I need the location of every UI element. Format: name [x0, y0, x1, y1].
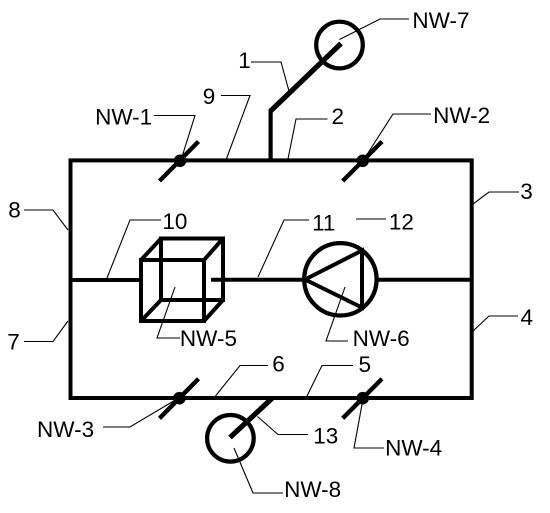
leader for label NW-4: [354, 399, 384, 448]
label NW-4: [385, 436, 442, 461]
wire: middle pipe right segment (NW-6 to right edge): [376, 278, 472, 282]
label NW-7: [412, 8, 469, 33]
leader for label 10: [107, 220, 161, 278]
svg-text:NW-5: NW-5: [180, 326, 237, 351]
svg-text:NW-7: NW-7: [412, 8, 469, 33]
wire: middle pipe center segment (NW-5 to NW-6): [211, 278, 305, 282]
label NW-2: [433, 103, 490, 128]
label 1: [238, 48, 251, 73]
valve NW-1 (top edge left): [160, 142, 199, 182]
svg-text:5: 5: [359, 352, 372, 377]
leader for label 5: [307, 366, 353, 397]
svg-text:NW-6: NW-6: [353, 326, 410, 351]
leader for label 4: [473, 316, 518, 331]
leader for label 2: [288, 119, 328, 159]
leader for label 8: [24, 210, 68, 230]
leader for label 13: [258, 417, 309, 435]
label 12: [389, 210, 414, 235]
svg-text:NW-1: NW-1: [95, 105, 152, 130]
svg-text:10: 10: [162, 209, 187, 234]
leader for label 11: [258, 220, 309, 277]
svg-text:NW-4: NW-4: [385, 436, 442, 461]
label 4: [521, 305, 534, 330]
svg-text:NW-3: NW-3: [37, 417, 94, 442]
leader for label NW-5: [157, 287, 180, 338]
leader for label 1: [251, 62, 290, 93]
leader for label 9: [221, 96, 250, 161]
svg-text:11: 11: [312, 211, 335, 236]
pump NW-6 (circle with left-pointing triangle): [304, 243, 376, 315]
leader for label 7: [24, 321, 68, 342]
label NW-3: [37, 417, 94, 442]
label 5: [359, 352, 372, 377]
svg-text:NW-8: NW-8: [284, 477, 341, 502]
svg-text:7: 7: [7, 330, 20, 355]
leader for label 12: [356, 218, 386, 220]
label 13: [313, 424, 338, 449]
pipe loop rectangle (main vessel outline): [71, 160, 472, 398]
valve NW-2 (top edge right): [343, 142, 382, 182]
label NW-6: [353, 326, 410, 351]
leader for label 6: [216, 366, 269, 397]
label 7: [7, 330, 20, 355]
leader for label 3: [473, 192, 519, 204]
svg-text:12: 12: [389, 210, 414, 235]
svg-text:9: 9: [203, 84, 216, 109]
valve NW-3 (bottom edge left): [160, 379, 199, 419]
label 3: [520, 179, 533, 204]
leader for label NW-7: [340, 19, 410, 40]
label 6: [272, 352, 285, 377]
label NW-1: [95, 105, 152, 130]
heat exchanger cube NW-5: [141, 239, 223, 322]
svg-text:NW-2: NW-2: [433, 103, 490, 128]
leader for label NW-1: [154, 116, 195, 161]
label 8: [8, 198, 21, 223]
leader for label NW-6: [326, 287, 348, 341]
port circle NW-7 (top connection): [271, 22, 363, 161]
svg-text:6: 6: [272, 352, 285, 377]
svg-text:8: 8: [8, 198, 21, 223]
svg-text:1: 1: [238, 48, 251, 73]
label NW-8: [284, 477, 341, 502]
leader for label NW-2: [364, 114, 432, 160]
wire: middle pipe left segment (left edge to NW-5): [71, 278, 142, 282]
port circle NW-8 (bottom connection): [207, 398, 272, 461]
valve NW-4 (bottom edge right): [343, 379, 382, 419]
svg-text:2: 2: [332, 104, 345, 129]
label 10: [162, 209, 187, 234]
svg-text:3: 3: [520, 179, 533, 204]
leader for label NW-8: [234, 448, 283, 493]
label 9: [203, 84, 216, 109]
svg-text:13: 13: [313, 424, 338, 449]
svg-text:4: 4: [521, 305, 534, 330]
label 11: [312, 211, 335, 236]
label 2: [332, 104, 345, 129]
leader for label NW-3: [103, 399, 177, 427]
label NW-5: [180, 326, 237, 351]
